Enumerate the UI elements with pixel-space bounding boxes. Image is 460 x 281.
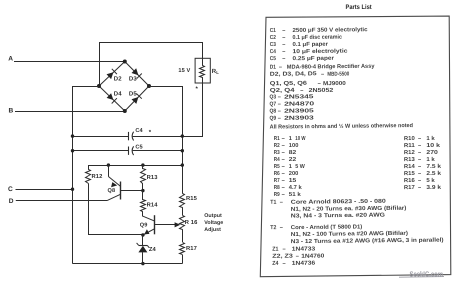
- svg-text:Parts List: Parts List: [346, 4, 373, 11]
- svg-text:0.1 μF disc ceramic: 0.1 μF disc ceramic: [292, 34, 342, 42]
- node A label: [8, 56, 13, 63]
- svg-text:C2: C2: [270, 35, 276, 41]
- svg-text:B: B: [9, 107, 14, 114]
- svg-text:T1: T1: [270, 200, 276, 206]
- svg-text:–: –: [282, 56, 285, 62]
- svg-text:Q7: Q7: [269, 102, 276, 108]
- junction C5 left: [71, 149, 74, 152]
- svg-text:2N3905: 2N3905: [284, 108, 314, 114]
- resistor R13 label: [147, 174, 159, 181]
- svg-text:Z2, Z3: Z2, Z3: [272, 254, 293, 260]
- svg-text:D1: D1: [270, 65, 276, 71]
- svg-text:–: –: [282, 136, 285, 142]
- diode D3 (bridge top vertex to right vertex): [125, 62, 149, 87]
- asterisk footnote mark near RL: [196, 86, 199, 93]
- svg-text:D5: D5: [129, 91, 137, 98]
- svg-text:2.5 k: 2.5 k: [426, 170, 442, 177]
- resistor R16 label: [185, 219, 198, 226]
- svg-text:100: 100: [289, 143, 299, 149]
- svg-text:R5: R5: [274, 164, 280, 170]
- svg-text:–: –: [282, 49, 285, 55]
- svg-text:Z4: Z4: [272, 261, 279, 267]
- wire below R17: [182, 255, 184, 264]
- diode D5 (bridge bottom vertex to right vertex): [125, 86, 149, 111]
- svg-text:10 μF electrolytic: 10 μF electrolytic: [292, 48, 347, 56]
- svg-text:R16: R16: [404, 178, 415, 184]
- svg-text:R13: R13: [147, 174, 159, 181]
- label RL: [212, 68, 219, 75]
- svg-text:3.9 k: 3.9 k: [426, 184, 442, 191]
- svg-text:4.7 k: 4.7 k: [289, 184, 303, 191]
- svg-text:–: –: [418, 171, 421, 177]
- wire input A line: [14, 61, 125, 63]
- wire input C line: [16, 189, 73, 191]
- svg-text:–: –: [418, 136, 421, 142]
- svg-text:R11: R11: [404, 143, 415, 149]
- svg-text:15 V: 15 V: [178, 68, 190, 74]
- svg-text:RL: RL: [212, 68, 219, 75]
- junction Z4 at bottom rail: [141, 262, 144, 265]
- label Output Voltage Adjust: [204, 213, 223, 233]
- svg-text:2N5345: 2N5345: [284, 94, 313, 100]
- svg-text:C4: C4: [270, 49, 277, 55]
- svg-text:*: *: [196, 86, 199, 93]
- svg-text:D3: D3: [129, 75, 137, 82]
- resistor R16 (potentiometer): [180, 216, 185, 230]
- svg-text:–: –: [418, 157, 421, 163]
- svg-text:T2: T2: [270, 225, 276, 231]
- junction C4 left: [71, 134, 74, 137]
- potentiometer wiper arrow into R16: [175, 222, 181, 227]
- svg-text:R6: R6: [274, 171, 280, 177]
- wire between R15 and R16: [182, 207, 184, 215]
- svg-text:Z4: Z4: [149, 247, 157, 253]
- svg-text:Adjust: Adjust: [204, 227, 221, 233]
- svg-text:2N3903: 2N3903: [284, 115, 314, 121]
- svg-text:A: A: [8, 56, 13, 63]
- svg-text:5 W: 5 W: [295, 164, 305, 170]
- svg-text:R2: R2: [274, 143, 280, 149]
- svg-text:–: –: [282, 157, 285, 163]
- parts list title: [346, 4, 373, 11]
- svg-text:–: –: [300, 88, 303, 94]
- svg-text:1N4760: 1N4760: [301, 254, 324, 260]
- svg-text:R1: R1: [274, 136, 280, 142]
- svg-text:–: –: [282, 171, 285, 177]
- svg-text:–: –: [282, 178, 285, 184]
- wire bottom rail: [73, 263, 183, 265]
- diode D4 (bridge left vertex to bottom vertex): [99, 86, 125, 111]
- svg-text:2N5052: 2N5052: [309, 88, 334, 94]
- svg-text:1 k: 1 k: [426, 156, 435, 163]
- svg-text:R15: R15: [186, 196, 198, 202]
- svg-text:R14: R14: [404, 164, 416, 170]
- svg-text:–: –: [282, 185, 285, 191]
- transistor Q8: [108, 165, 143, 200]
- capacitor C5: [73, 146, 183, 155]
- wire RL bottom lead: [183, 84, 203, 137]
- svg-text:–: –: [280, 200, 283, 206]
- svg-text:5 k: 5 k: [426, 177, 435, 184]
- svg-text:All Resistors in ohms and ½ W: All Resistors in ohms and ½ W unless oth…: [270, 122, 414, 131]
- svg-text:Q3: Q3: [269, 94, 276, 100]
- wire from top rail down to bridge left vertex: [99, 42, 101, 86]
- svg-text:R12: R12: [404, 150, 415, 156]
- node B label: [9, 107, 14, 114]
- parts list border: [260, 16, 451, 277]
- junction R13 top: [141, 163, 144, 166]
- wire bridge left vertex to left rail: [73, 86, 100, 88]
- capacitor C4 label: [135, 128, 143, 134]
- resistor R17 label: [186, 246, 197, 252]
- svg-text:Core - Arnold (T 5800 D1): Core - Arnold (T 5800 D1): [291, 223, 363, 231]
- svg-text:D: D: [9, 198, 14, 205]
- parts list text: [268, 25, 444, 267]
- svg-text:D2: D2: [114, 75, 122, 82]
- svg-text:–: –: [282, 164, 285, 170]
- svg-text:270: 270: [426, 150, 438, 156]
- svg-text:Z1: Z1: [272, 247, 278, 253]
- svg-text:22: 22: [289, 157, 297, 163]
- junction Q8 base / R13 / R14: [141, 189, 144, 192]
- svg-text:200: 200: [289, 171, 299, 177]
- resistor R14 label: [147, 203, 159, 209]
- svg-text:R7: R7: [274, 178, 280, 184]
- svg-text:–: –: [280, 225, 283, 231]
- svg-text:10 k: 10 k: [426, 142, 441, 149]
- svg-text:0.1 μF paper: 0.1 μF paper: [292, 42, 328, 48]
- resistor R13: [141, 166, 146, 191]
- svg-text:–: –: [282, 143, 285, 149]
- junction bridge right vertex: [147, 84, 151, 88]
- svg-text:1N4733: 1N4733: [292, 246, 315, 252]
- svg-text:C1: C1: [270, 28, 276, 34]
- wire input D line: [16, 200, 108, 202]
- svg-text:1: 1: [289, 136, 292, 142]
- svg-text:–: –: [418, 143, 421, 149]
- svg-text:–: –: [321, 72, 324, 78]
- junction C4 right: [181, 134, 184, 137]
- node C label: [8, 186, 13, 193]
- svg-text:C: C: [8, 186, 13, 193]
- svg-text:*: *: [149, 129, 152, 136]
- svg-text:N3, N4 - 3 Turns ea. #20 AWG: N3, N4 - 3 Turns ea. #20 AWG: [291, 213, 386, 220]
- svg-text:–: –: [318, 81, 321, 87]
- resistor R15 label: [186, 196, 198, 202]
- svg-text:–: –: [296, 254, 299, 260]
- svg-text:–: –: [282, 42, 285, 48]
- svg-text:Core Arnold 80623 - .50 - 080: Core Arnold 80623 - .50 - 080: [291, 198, 386, 206]
- transistor Q9 label: [140, 222, 148, 228]
- junction right rail at top line: [181, 163, 184, 166]
- svg-text:Voltage: Voltage: [204, 220, 223, 226]
- svg-text:–: –: [282, 150, 285, 156]
- svg-text:–: –: [279, 65, 282, 71]
- svg-text:R4: R4: [274, 157, 281, 163]
- transistor Q8 label: [108, 188, 116, 194]
- svg-text:R17: R17: [186, 246, 197, 252]
- svg-text:51 k: 51 k: [289, 191, 302, 198]
- diode D3 label: [129, 75, 137, 82]
- svg-text:C4: C4: [135, 128, 143, 134]
- svg-text:MDA-980-4 Bridge Rectifier Ass: MDA-980-4 Bridge Rectifier Assy: [287, 63, 376, 71]
- svg-text:–: –: [418, 164, 421, 170]
- svg-text:0.25 μF paper: 0.25 μF paper: [292, 56, 334, 62]
- wire left rail vertical: [72, 86, 74, 264]
- wire regulator top line: [88, 165, 182, 167]
- svg-text:Q2, Q4: Q2, Q4: [270, 88, 296, 94]
- junction Q8 emitter at top line: [107, 163, 110, 166]
- svg-text:–: –: [278, 116, 281, 122]
- label 15 V: [178, 68, 190, 74]
- svg-text:Q9: Q9: [269, 116, 276, 122]
- wire R12 bottom to Q9 emitter node: [89, 184, 143, 235]
- svg-text:R8: R8: [274, 185, 280, 191]
- wire between R16 and R17: [182, 229, 184, 242]
- svg-text:MBD-5500: MBD-5500: [327, 72, 349, 78]
- diode D2 label: [114, 75, 122, 82]
- svg-text:R9: R9: [274, 192, 280, 198]
- svg-text:1: 1: [289, 164, 292, 170]
- svg-text:–: –: [282, 247, 285, 253]
- svg-text:2N4870: 2N4870: [284, 101, 314, 107]
- svg-text:–: –: [282, 35, 285, 41]
- junction Q9 emitter / R12 / Z4: [141, 233, 144, 236]
- resistor R12: [86, 166, 91, 184]
- capacitor C5 label: [135, 144, 142, 150]
- wire right rail vertical upper: [182, 86, 184, 194]
- svg-text:82: 82: [289, 150, 297, 156]
- svg-text:C3: C3: [270, 42, 276, 48]
- wire bridge right vertex to right rail: [149, 86, 182, 88]
- diode D2 (bridge left vertex to top vertex): [99, 62, 125, 87]
- node D label: [9, 198, 14, 205]
- svg-text:R15: R15: [404, 171, 415, 177]
- junction bridge left vertex: [97, 84, 101, 88]
- svg-text:N3 - 12 Turns ea #12 AWG (#16: N3 - 12 Turns ea #12 AWG (#16 AWG, 3 in …: [291, 237, 444, 246]
- svg-text:–: –: [282, 28, 285, 34]
- svg-text:Q9: Q9: [140, 222, 148, 228]
- svg-text:R13: R13: [404, 157, 415, 163]
- svg-text:15: 15: [289, 178, 297, 184]
- transistor Q9: [143, 215, 176, 235]
- diode D4 label: [114, 91, 122, 98]
- svg-text:10 W: 10 W: [295, 136, 306, 142]
- resistor R17: [180, 243, 185, 255]
- resistor R14: [141, 191, 146, 217]
- capacitor C4: [73, 132, 183, 141]
- junction bridge top vertex: [123, 60, 127, 64]
- svg-text:–: –: [418, 178, 421, 184]
- svg-text:Output: Output: [204, 213, 222, 219]
- svg-text:D4: D4: [114, 91, 122, 98]
- junction C line to left rail: [71, 188, 74, 191]
- svg-text:Q8: Q8: [108, 188, 116, 194]
- resistor R15: [180, 194, 185, 208]
- svg-text:R12: R12: [92, 173, 103, 180]
- resistor RL (load) box and element: [195, 58, 210, 83]
- svg-text:C5: C5: [270, 56, 276, 62]
- svg-text:–: –: [282, 192, 285, 198]
- junction bridge bottom vertex: [123, 109, 127, 113]
- zener Z4 label: [149, 247, 157, 253]
- svg-text:R3: R3: [274, 150, 280, 156]
- wire RL top lead: [202, 42, 204, 58]
- svg-text:N1, N2 - 100 Turns ea #20 AWG: N1, N2 - 100 Turns ea #20 AWG (Bifilar): [291, 230, 408, 238]
- svg-text:R10: R10: [404, 136, 415, 142]
- svg-text:–: –: [278, 109, 281, 115]
- zener diode Z4: [137, 235, 150, 264]
- wire input B line: [15, 111, 125, 113]
- svg-text:R 16: R 16: [185, 219, 198, 226]
- svg-text:MJ9000: MJ9000: [323, 81, 346, 87]
- svg-text:–: –: [418, 150, 421, 156]
- svg-text:–: –: [282, 261, 285, 267]
- svg-text:7.5 k: 7.5 k: [426, 163, 442, 170]
- junction C5 right: [181, 149, 184, 152]
- watermark SeekIC.com: [399, 269, 444, 278]
- svg-text:R17: R17: [404, 185, 415, 191]
- svg-text:D2, D3, D4, D5: D2, D3, D4, D5: [270, 71, 317, 77]
- svg-text:1N4736: 1N4736: [292, 261, 315, 267]
- svg-text:2500 μF 350 V electrolytic: 2500 μF 350 V electrolytic: [292, 26, 367, 34]
- svg-text:R14: R14: [147, 203, 159, 209]
- svg-text:–: –: [418, 185, 421, 191]
- svg-text:Q8: Q8: [269, 109, 276, 115]
- svg-text:N1, N2 - 20 Turns ea. #30 AWG: N1, N2 - 20 Turns ea. #30 AWG (Bifilar): [291, 205, 407, 213]
- asterisk footnote mark near C4: [149, 129, 152, 136]
- resistor R12 label: [92, 173, 103, 180]
- svg-text:–: –: [278, 95, 281, 101]
- diode D5 label: [129, 91, 137, 98]
- svg-text:C5: C5: [135, 144, 142, 150]
- svg-text:–: –: [278, 102, 281, 108]
- wire top rail: [99, 42, 202, 44]
- svg-text:1 k: 1 k: [426, 135, 435, 142]
- svg-text:Q1, Q5, Q6: Q1, Q5, Q6: [270, 81, 307, 87]
